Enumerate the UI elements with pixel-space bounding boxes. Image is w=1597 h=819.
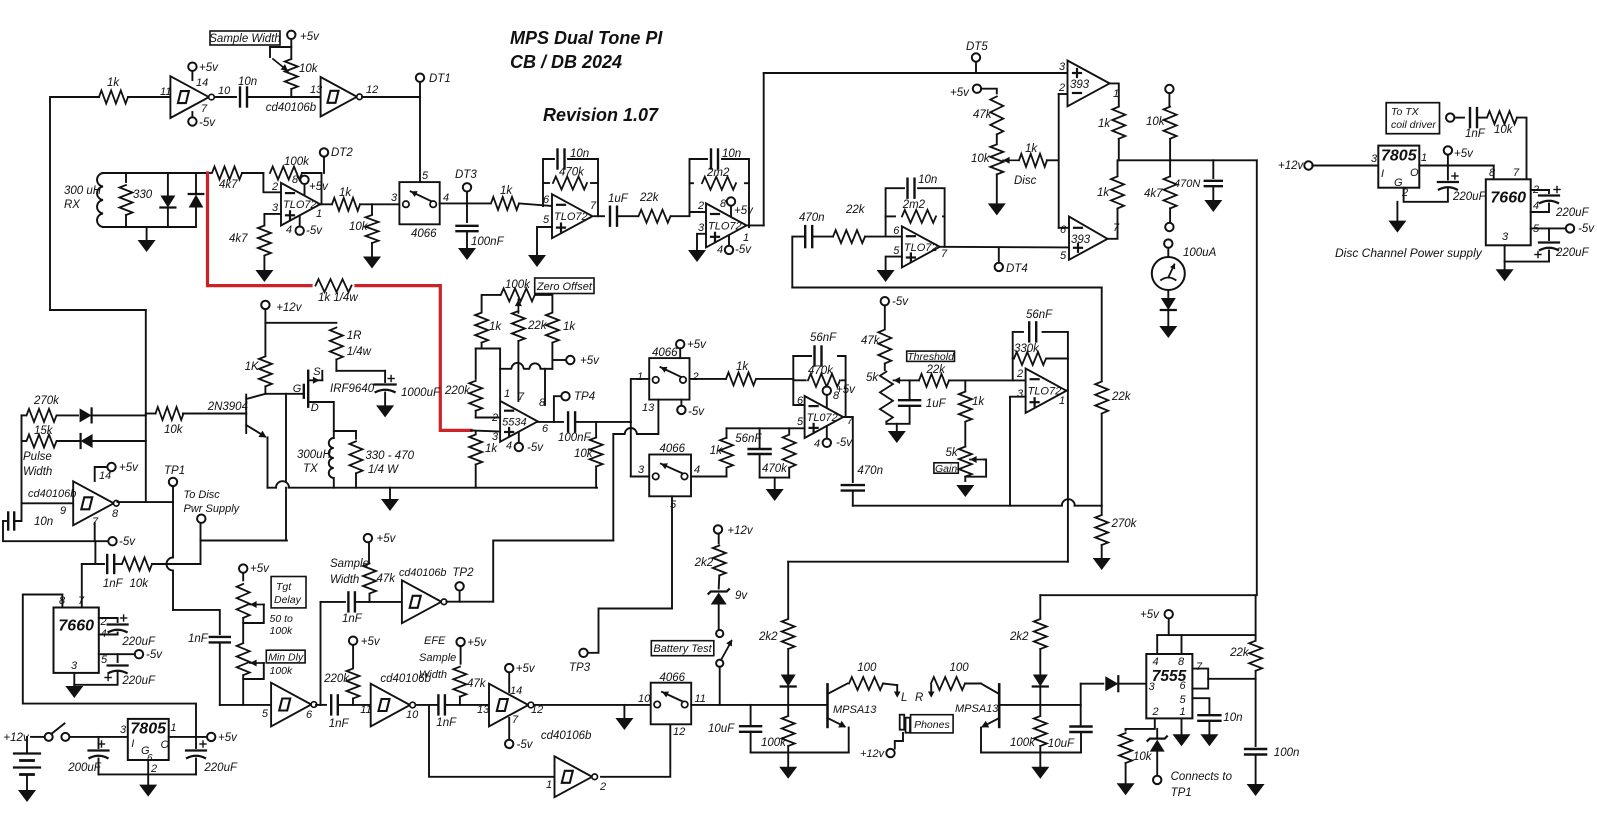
- resistor 100k (audio R): [1039, 705, 1041, 715]
- svg-text:Disc: Disc: [1014, 175, 1037, 187]
- resistor 22k (threshold): [910, 379, 919, 381]
- svg-text:220k: 220k: [323, 673, 350, 685]
- svg-text:+5v: +5v: [950, 87, 970, 99]
- wire U8b out with drop junction: [416, 704, 438, 706]
- U6 feedback loop wires: [793, 356, 804, 405]
- TP2 riser wire: [493, 541, 613, 602]
- svg-text:TLO72: TLO72: [708, 220, 742, 232]
- op-amp U2b TLO72 pins 6/5/7: [552, 194, 593, 238]
- audio left rail bottom: [751, 752, 849, 754]
- svg-text:1K: 1K: [245, 361, 260, 373]
- op-amp U7 TLO72 threshold comparator: [1026, 369, 1067, 413]
- svg-text:+5v: +5v: [687, 339, 707, 351]
- +12v terminal (driver): [261, 301, 269, 309]
- svg-text:+12v: +12v: [276, 302, 303, 314]
- capacitor 220uF (7805 out): [1447, 166, 1449, 180]
- U4b output pullup 1k lower: [1108, 209, 1118, 239]
- U3a pin3 ground: [697, 234, 706, 250]
- svg-text:5k: 5k: [946, 447, 959, 459]
- svg-text:7: 7: [78, 595, 85, 607]
- svg-text:TX: TX: [303, 463, 319, 475]
- ground under 100k R: [1031, 767, 1049, 779]
- capacitor 1nF (delay feed): [210, 636, 230, 638]
- U2b pin5 ground wire: [537, 227, 552, 255]
- svg-text:100: 100: [857, 662, 877, 674]
- svg-text:3: 3: [71, 660, 78, 672]
- Zero Offset box: [535, 278, 594, 294]
- svg-text:+5v: +5v: [309, 181, 329, 193]
- gain pot bracket: [965, 460, 986, 477]
- analog switch 4066 S1: [399, 182, 439, 224]
- svg-text:1: 1: [1421, 152, 1427, 164]
- svg-text:Sample: Sample: [419, 652, 456, 664]
- capacitor 1nF (minus filter): [94, 541, 96, 564]
- resistor 270k (pulse width): [22, 414, 26, 416]
- svg-text:1k: 1k: [485, 443, 498, 455]
- U4a output pullup 1k upper: [1110, 83, 1119, 106]
- disc output rail y287: [792, 287, 1101, 289]
- wire 22k to U3b pin6: [865, 236, 902, 238]
- wire U1a out to cap 10n: [216, 96, 236, 98]
- svg-text:220uF: 220uF: [1555, 247, 1590, 259]
- U3a feedback loop wires: [690, 159, 708, 212]
- svg-text:To Disc: To Disc: [184, 489, 221, 501]
- svg-text:56nF: 56nF: [735, 433, 762, 445]
- U7 output riser: [1066, 389, 1068, 391]
- resistor 4k7 (input): [212, 167, 242, 180]
- svg-text:5: 5: [543, 214, 550, 226]
- ground under 7660: [1504, 262, 1506, 270]
- op-amp U5 5534: [500, 401, 538, 442]
- svg-text:100k: 100k: [270, 625, 294, 637]
- svg-text:5: 5: [422, 170, 429, 182]
- resistor 1k (top left): [99, 91, 128, 104]
- svg-text:+12v: +12v: [3, 732, 30, 744]
- TX coil 300uH: [329, 438, 334, 478]
- svg-text:220k: 220k: [444, 385, 471, 397]
- ground under meter diode: [1167, 310, 1169, 326]
- svg-text:4k7: 4k7: [229, 233, 248, 245]
- wire pin7 to 22k bottom: [1208, 678, 1255, 680]
- svg-text:1: 1: [637, 371, 643, 383]
- capacitor 100nF (U5 out): [567, 412, 569, 431]
- 22k middle leg: [512, 311, 525, 341]
- RX coil 300uH: [97, 173, 103, 227]
- 7660 -5v output: [99, 653, 135, 655]
- U6 output down to 470n: [843, 417, 853, 482]
- diode D2 (RX clamp up): [195, 173, 197, 194]
- schmitt inverter U1b cd40106b pins 13/12: [321, 77, 357, 117]
- 7660 pin7 riser: [81, 564, 83, 608]
- S2 pin1 riser from U5 output: [631, 379, 649, 422]
- comparator input bus vertical: [1058, 94, 1060, 228]
- svg-text:Pulse: Pulse: [23, 451, 52, 463]
- terminal DT2: [323, 157, 325, 173]
- svg-text:220uF: 220uF: [121, 636, 156, 648]
- svg-text:10n: 10n: [722, 148, 741, 160]
- svg-text:1: 1: [170, 722, 176, 734]
- capacitor 10n (pw osc): [3, 520, 6, 522]
- U1c pin7 stub: [94, 523, 96, 541]
- svg-text:4066: 4066: [660, 443, 686, 455]
- audio feed wire y561: [788, 561, 1068, 563]
- svg-text:DT3: DT3: [455, 169, 477, 181]
- svg-text:7: 7: [1196, 661, 1203, 673]
- ground under 100nF: [458, 248, 476, 260]
- main ground rail: [99, 773, 197, 775]
- svg-text:2N3904: 2N3904: [207, 401, 248, 413]
- svg-text:22k: 22k: [1111, 391, 1132, 403]
- threshold row to U7: [949, 379, 1026, 381]
- svg-text:8: 8: [59, 595, 66, 607]
- wire base row: [183, 413, 246, 415]
- feedback vertical from gate output to diode rows: [145, 310, 147, 502]
- resistor 1K (driver): [264, 323, 266, 356]
- svg-text:56nF: 56nF: [1026, 309, 1053, 321]
- svg-text:Sample: Sample: [330, 558, 369, 570]
- svg-text:9v: 9v: [735, 590, 748, 602]
- +12v terminal (battery test): [714, 525, 722, 533]
- svg-text:1k: 1k: [1098, 118, 1111, 130]
- svg-text:MPSA13: MPSA13: [833, 704, 877, 716]
- resistor 22k: [639, 210, 671, 223]
- pulse width left bracket wire: [21, 415, 23, 503]
- svg-text:1nF: 1nF: [342, 613, 363, 625]
- svg-text:D: D: [311, 402, 319, 414]
- resistor 2k2 (audio L): [787, 562, 789, 619]
- U6 +5v terminal pin8: [826, 395, 828, 407]
- wire U8a out to 1nF: [316, 704, 326, 706]
- svg-text:4k7: 4k7: [219, 179, 238, 191]
- svg-text:6: 6: [1060, 224, 1067, 236]
- svg-text:2m2: 2m2: [706, 167, 730, 179]
- resistor 1k (U5 gain): [475, 431, 477, 433]
- svg-text:100nF: 100nF: [558, 432, 592, 444]
- svg-text:100k: 100k: [270, 665, 294, 677]
- svg-text:330: 330: [133, 189, 153, 201]
- svg-text:12: 12: [366, 84, 378, 96]
- resistor 4k7 (gain): [258, 226, 271, 256]
- diode to TP1: [1156, 729, 1158, 739]
- svg-text:4: 4: [286, 224, 292, 236]
- svg-text:TLO72: TLO72: [904, 242, 938, 254]
- Sample Width box label: [210, 31, 280, 45]
- svg-text:8: 8: [112, 508, 119, 520]
- U5 output wire: [538, 421, 564, 423]
- svg-text:DT2: DT2: [331, 147, 353, 159]
- svg-text:Zero Offset: Zero Offset: [536, 281, 593, 293]
- svg-text:R: R: [915, 692, 923, 704]
- svg-text:7805: 7805: [1381, 147, 1418, 164]
- svg-text:1k: 1k: [107, 77, 120, 89]
- svg-text:1k 1/4w: 1k 1/4w: [318, 292, 358, 304]
- svg-text:1nF: 1nF: [329, 718, 350, 730]
- 7805 ground pin wire: [147, 760, 149, 785]
- meter node row wire: [1119, 159, 1257, 161]
- svg-text:2: 2: [692, 371, 699, 383]
- capacitor 470n (threshold): [842, 484, 864, 486]
- svg-text:+12v: +12v: [1278, 160, 1305, 172]
- svg-text:5: 5: [797, 416, 804, 428]
- disc level pot: +5v terminal: [973, 85, 981, 93]
- svg-text:+5v: +5v: [199, 62, 219, 74]
- wire 1k to 4066 switch: [360, 203, 399, 205]
- wire from RX input corner to 1k: [50, 97, 99, 310]
- svg-text:2: 2: [271, 181, 278, 193]
- svg-text:Phones: Phones: [914, 719, 950, 731]
- S2 +5v terminal: [679, 349, 681, 359]
- wire cap to node and U1b input: [247, 96, 321, 98]
- L output arrow: [883, 684, 897, 686]
- 7555 pin1 ground: [1181, 718, 1183, 734]
- ground under 7660 pin3: [73, 685, 75, 686]
- TP1 riser down past filter row: [172, 502, 174, 557]
- svg-text:4: 4: [694, 464, 700, 476]
- svg-text:+5v: +5v: [250, 563, 270, 575]
- capacitor 100nF at DT3: [466, 203, 468, 222]
- capacitor 1nF (c): [437, 695, 439, 714]
- wire U2a output to 1k: [318, 203, 331, 205]
- svg-text:100: 100: [950, 662, 970, 674]
- svg-text:100k: 100k: [505, 279, 531, 291]
- U1c +5v terminal: [95, 467, 107, 481]
- U7 pin3 wire to rail: [1010, 397, 1026, 506]
- sample width channel: 47k a: [364, 534, 372, 542]
- pot 5k (threshold): [880, 372, 893, 422]
- svg-text:1: 1: [316, 208, 322, 220]
- op-amp U2a TLO72 RX amp: [281, 183, 320, 226]
- svg-text:+5v: +5v: [467, 637, 487, 649]
- ground under 10n (7555): [1200, 734, 1218, 746]
- svg-text:5: 5: [1060, 250, 1067, 262]
- svg-text:5k: 5k: [866, 372, 879, 384]
- comparator U4b 393 bottom: [1069, 217, 1108, 260]
- svg-text:14: 14: [99, 470, 111, 482]
- U8c +5v terminal: [508, 673, 510, 693]
- wire 1R bottom to source and 1000uF: [336, 370, 385, 372]
- capacitor 220uF (main out): [195, 737, 197, 748]
- riser from U3a output up to comparator row: [763, 73, 765, 225]
- U3b output row to 393 pin5: [940, 246, 1069, 249]
- ground under 10k (7555): [1117, 783, 1135, 795]
- schmitt inverter U1a cd40106b pins 11/10: [170, 76, 209, 118]
- svg-text:TP1: TP1: [164, 465, 185, 477]
- svg-text:DT4: DT4: [1006, 263, 1028, 275]
- feedback resistor 330k (U7): [1014, 352, 1046, 365]
- U2b feedback loop wires: [543, 159, 554, 206]
- terminal DT5: [975, 62, 977, 73]
- terminal under 4k7: [1165, 223, 1173, 231]
- feedback capacitor 56nF (U6): [813, 347, 815, 366]
- svg-text:10n: 10n: [34, 516, 53, 528]
- +5v terminal (5534): [552, 359, 566, 361]
- svg-text:6: 6: [893, 225, 900, 237]
- wire 470n to 22k: [812, 236, 833, 238]
- U8c -5v terminal: [508, 718, 510, 740]
- svg-text:470n: 470n: [799, 212, 825, 224]
- U1a -5v terminal: [191, 112, 193, 117]
- U2a -5v terminal: [299, 216, 301, 227]
- +5v terminal (main): [207, 733, 215, 741]
- ground at U2b pin5: [528, 255, 546, 267]
- svg-text:Delay: Delay: [274, 594, 302, 606]
- svg-text:10k: 10k: [1146, 116, 1166, 128]
- svg-text:10k: 10k: [971, 153, 991, 165]
- svg-text:cd40106b: cd40106b: [28, 488, 76, 500]
- U1c -5v row and terminal: [3, 521, 108, 541]
- battery test switch: [716, 630, 723, 637]
- svg-text:-5v: -5v: [119, 536, 136, 548]
- svg-text:3: 3: [1371, 153, 1378, 165]
- svg-text:100n: 100n: [1274, 747, 1300, 759]
- U3b pin5 ground: [886, 257, 902, 270]
- svg-text:1uF: 1uF: [608, 193, 629, 205]
- resistor 1R 1/4w: [330, 328, 343, 360]
- svg-text:cd40106b: cd40106b: [399, 567, 446, 579]
- comparator top row wire to 393 pin3: [764, 72, 1068, 74]
- svg-text:300 uH: 300 uH: [64, 185, 102, 197]
- sample width pot 10k: [287, 31, 295, 39]
- Phones box: [911, 715, 954, 733]
- -5v terminal (threshold): [881, 297, 889, 305]
- terminal DT3: [466, 192, 468, 204]
- threshold pot bracket & 1uF: [886, 406, 909, 424]
- svg-text:7: 7: [941, 248, 948, 260]
- resistor 220k (efe): [352, 645, 354, 667]
- TX driver terminal: [1446, 113, 1454, 121]
- wire 10k to 7660 pin7: [1517, 118, 1527, 180]
- svg-text:-5v: -5v: [146, 649, 163, 661]
- U5 output row to 4066 junction: [575, 421, 631, 423]
- svg-text:+12v: +12v: [727, 525, 754, 537]
- +5v terminal (7555): [1165, 610, 1173, 618]
- schmitt oscillator U1c cd40106b pins 9/8: [22, 502, 74, 504]
- svg-text:+5v: +5v: [1140, 609, 1160, 621]
- wire base row to diode: [1080, 684, 1082, 705]
- pot Min Dly 100k: [237, 643, 250, 675]
- to-disc riser upper part: [285, 394, 287, 482]
- wire cap to 47k junction and U8c: [445, 704, 489, 706]
- svg-text:22k: 22k: [926, 364, 947, 376]
- svg-text:220uF: 220uF: [1555, 207, 1590, 219]
- svg-text:3: 3: [1017, 388, 1024, 400]
- svg-text:11: 11: [160, 86, 171, 98]
- Tgt Delay box: [271, 577, 306, 608]
- rail down to 22k divider: [1101, 288, 1103, 382]
- 7660 pin3 ground wire: [74, 672, 117, 685]
- diode to 7555 pin3: [1105, 676, 1118, 691]
- capacitor 10n: [239, 88, 241, 107]
- svg-text:Threshold: Threshold: [907, 351, 955, 363]
- svg-text:-5v: -5v: [688, 406, 705, 418]
- svg-text:3: 3: [391, 192, 398, 204]
- svg-text:-5v: -5v: [836, 437, 853, 449]
- diode D1 (RX clamp down): [167, 173, 169, 195]
- feedback resistor 100k: [270, 167, 302, 180]
- svg-text:1/4 W: 1/4 W: [368, 464, 399, 476]
- resistor 22k (7555): [1255, 595, 1257, 639]
- svg-text:TP3: TP3: [569, 662, 591, 674]
- svg-text:8: 8: [720, 198, 727, 210]
- svg-text:6: 6: [797, 395, 804, 407]
- svg-text:10k: 10k: [164, 424, 184, 436]
- capacitor 56nF (sample filter): [759, 428, 761, 449]
- U7 feedback loop wires: [1013, 332, 1023, 381]
- resistor 2k2 (audio R): [1039, 595, 1041, 618]
- U5 pin3 wire: [471, 430, 500, 431]
- resistor 22k (U3b): [833, 230, 865, 243]
- wire switch pin4 to DT3 node: [440, 202, 490, 204]
- svg-text:+5v: +5v: [836, 384, 856, 396]
- svg-text:MPSA13: MPSA13: [955, 703, 999, 715]
- wire pots to gate U8a input: [220, 704, 271, 706]
- feedback resistor 2m2 (U3b): [902, 210, 936, 223]
- svg-text:3: 3: [120, 724, 127, 736]
- resistor 100 (right): [931, 677, 965, 690]
- svg-text:220uF: 220uF: [203, 762, 238, 774]
- wire +12v to 7805: [1312, 165, 1378, 167]
- resistor 10k (7555): [1125, 729, 1127, 731]
- capacitor 220uF (7660 out): [117, 654, 119, 662]
- ground under gain pot: [956, 485, 974, 497]
- wire corner into feedback vertical: [50, 309, 146, 311]
- svg-text:1k: 1k: [500, 185, 513, 197]
- svg-text:22k: 22k: [845, 204, 866, 216]
- svg-text:220uF: 220uF: [1452, 191, 1487, 203]
- To TX coil driver box: [1386, 103, 1439, 134]
- resistor 15k (pulse width): [22, 440, 26, 442]
- feedback capacitor 10n (U3b): [906, 179, 908, 198]
- svg-text:10k: 10k: [349, 221, 369, 233]
- resistor 1k (sample filter A): [726, 470, 728, 477]
- svg-text:4066: 4066: [411, 228, 437, 240]
- terminal TP4: [554, 396, 561, 422]
- feedback capacitor 10n (U2b): [556, 150, 558, 169]
- svg-text:10n: 10n: [1223, 712, 1242, 724]
- svg-text:7: 7: [512, 714, 519, 726]
- S3 pin3 feed wire: [630, 422, 632, 477]
- svg-text:5534: 5534: [502, 416, 526, 428]
- svg-text:+5v: +5v: [377, 533, 397, 545]
- wire RX to 4k7: [206, 172, 210, 174]
- pin8 jumper wire: [500, 368, 511, 370]
- svg-text:2k2: 2k2: [1009, 631, 1029, 643]
- wire cap to 220k junction and U8b: [338, 704, 371, 706]
- capacitor 100n: [1255, 679, 1257, 746]
- svg-text:RX: RX: [64, 199, 81, 211]
- svg-text:50 to: 50 to: [270, 613, 294, 625]
- svg-text:11: 11: [695, 693, 706, 705]
- op-amp U3b TLO72 pins 6/5/7: [902, 226, 940, 267]
- svg-text:100k: 100k: [761, 737, 787, 749]
- wire U8c out to 4066 S4: [534, 704, 652, 706]
- wire to 1nF: [1455, 117, 1465, 119]
- svg-text:Width: Width: [419, 669, 447, 681]
- ground under 270k: [1093, 558, 1111, 570]
- red wire RX node to preamp input: [208, 173, 312, 286]
- wire 1k to schmitt U1a: [128, 96, 170, 98]
- svg-text:TLO72: TLO72: [283, 199, 317, 211]
- svg-text:Pwr Supply: Pwr Supply: [184, 503, 241, 515]
- pot left bracket & 1k left: [482, 295, 501, 311]
- svg-text:47k: 47k: [861, 335, 881, 347]
- svg-text:DT5: DT5: [966, 41, 988, 53]
- S3 output row: [691, 476, 727, 478]
- svg-text:Tgt: Tgt: [276, 581, 292, 593]
- svg-text:1nF: 1nF: [436, 717, 457, 729]
- svg-text:1k: 1k: [1097, 187, 1110, 199]
- svg-text:470N: 470N: [1174, 178, 1200, 190]
